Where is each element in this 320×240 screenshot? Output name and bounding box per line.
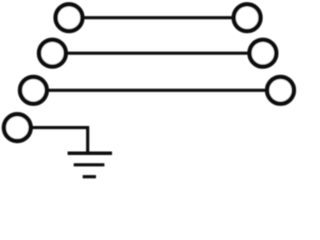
wire level 4 horizontal <box>17 126 87 129</box>
wire level 2 <box>52 52 263 55</box>
ground symbol <box>68 153 112 176</box>
wire level 3 <box>33 89 280 92</box>
terminal contact R1 (top right) <box>234 4 261 31</box>
wire level 4 vertical drop to ground <box>86 126 89 153</box>
terminal contact R3 <box>267 77 294 104</box>
terminal contact L3 <box>20 77 47 104</box>
terminal contact L1 (top left) <box>56 4 83 31</box>
terminal contact R2 <box>250 40 277 67</box>
terminal contact L2 <box>39 40 66 67</box>
wire level 1 <box>69 16 247 19</box>
terminal contact L4 (ground level) <box>4 114 31 141</box>
